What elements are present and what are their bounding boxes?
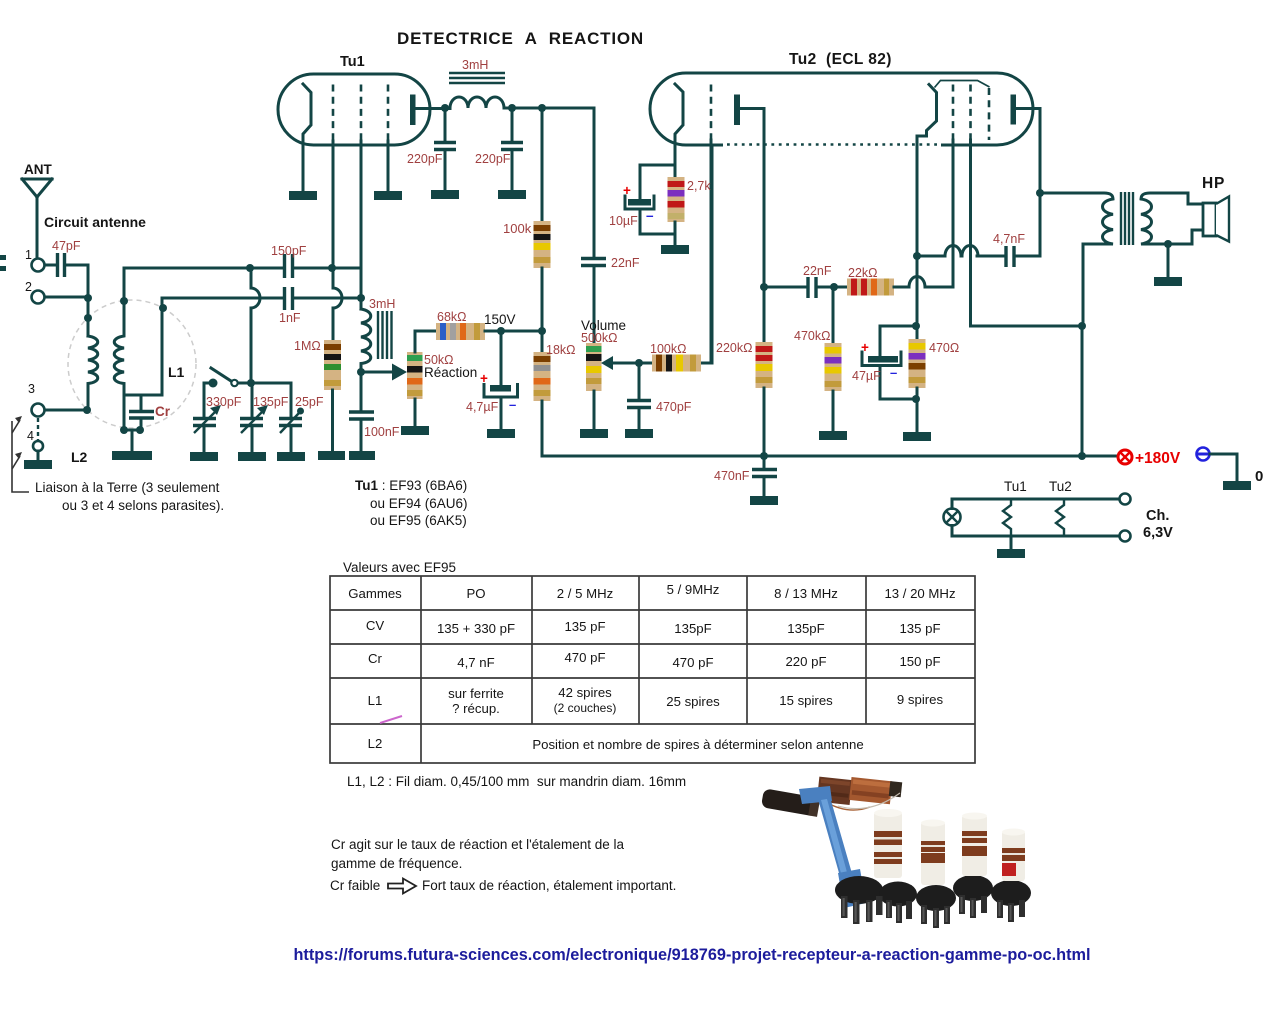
svg-text:HP: HP xyxy=(1202,175,1225,192)
svg-text:ou 3 et 4 selons parasites).: ou 3 et 4 selons parasites). xyxy=(62,498,224,513)
svg-text:135 + 330 pF: 135 + 330 pF xyxy=(437,621,515,636)
svg-text:100nF: 100nF xyxy=(364,425,400,439)
svg-text:Cr agit sur le taux de réactio: Cr agit sur le taux de réaction et l'éta… xyxy=(331,837,624,852)
svg-text:470 pF: 470 pF xyxy=(672,655,713,670)
svg-text:135 pF: 135 pF xyxy=(899,621,940,636)
svg-text:135pF: 135pF xyxy=(787,621,824,636)
svg-text:3: 3 xyxy=(28,382,35,396)
svg-text:3mH: 3mH xyxy=(462,58,488,72)
svg-text:100k: 100k xyxy=(503,221,532,236)
svg-text:ou EF94 (6AU6): ou EF94 (6AU6) xyxy=(370,496,468,511)
svg-text:5 / 9MHz: 5 / 9MHz xyxy=(667,582,720,597)
svg-text:470Ω: 470Ω xyxy=(929,341,959,355)
svg-text:–: – xyxy=(509,397,516,412)
svg-text:1MΩ: 1MΩ xyxy=(294,339,321,353)
svg-text:150 pF: 150 pF xyxy=(899,654,940,669)
svg-text:10µF: 10µF xyxy=(609,214,638,228)
svg-text:9 spires: 9 spires xyxy=(897,692,944,707)
svg-text:https://forums.futura-sciences: https://forums.futura-sciences.com/elect… xyxy=(293,946,1090,964)
svg-text:135pF: 135pF xyxy=(253,395,289,409)
svg-text:470nF: 470nF xyxy=(714,469,750,483)
svg-text:DETECTRICE A REACTION: DETECTRICE A REACTION xyxy=(397,29,644,48)
svg-text:470kΩ: 470kΩ xyxy=(794,329,830,343)
svg-text:ANT: ANT xyxy=(24,162,52,177)
svg-text:2,7k: 2,7k xyxy=(687,179,711,193)
svg-text:6,3V: 6,3V xyxy=(1143,525,1173,541)
svg-text:Liaison à la Terre (3 seulemen: Liaison à la Terre (3 seulement xyxy=(35,480,220,495)
svg-text:0: 0 xyxy=(1255,468,1263,485)
svg-text:220 pF: 220 pF xyxy=(785,654,826,669)
svg-text:–: – xyxy=(646,208,654,223)
svg-text:Tu2: Tu2 xyxy=(1049,479,1072,494)
svg-text:CV: CV xyxy=(366,618,385,633)
svg-text:2 / 5 MHz: 2 / 5 MHz xyxy=(557,586,613,601)
svg-text:Circuit antenne: Circuit antenne xyxy=(44,214,146,230)
svg-text:18kΩ: 18kΩ xyxy=(546,343,576,357)
svg-text:1: 1 xyxy=(25,248,32,262)
svg-text:4: 4 xyxy=(27,429,34,443)
svg-text:47µF: 47µF xyxy=(852,369,881,383)
svg-text:+180V: +180V xyxy=(1135,450,1181,467)
svg-text:? récup.: ? récup. xyxy=(452,701,500,716)
svg-text:1nF: 1nF xyxy=(279,311,301,325)
svg-text:Tu1: Tu1 xyxy=(1004,479,1027,494)
svg-text:PO: PO xyxy=(466,586,485,601)
svg-text:135pF: 135pF xyxy=(674,621,711,636)
svg-text:13 / 20 MHz: 13 / 20 MHz xyxy=(884,586,955,601)
svg-text:22nF: 22nF xyxy=(611,256,640,270)
svg-text:Cr: Cr xyxy=(155,404,171,419)
svg-text:470pF: 470pF xyxy=(656,400,692,414)
svg-text:4,7 nF: 4,7 nF xyxy=(457,655,494,670)
svg-text:L2: L2 xyxy=(368,736,383,751)
svg-text:3mH: 3mH xyxy=(369,297,395,311)
svg-text:L1: L1 xyxy=(168,364,185,380)
svg-text:Gammes: Gammes xyxy=(348,586,402,601)
svg-text:ou EF95 (6AK5): ou EF95 (6AK5) xyxy=(370,513,467,528)
svg-text:150V: 150V xyxy=(484,312,516,327)
svg-text:Tu1: Tu1 xyxy=(340,54,365,70)
svg-text:330pF: 330pF xyxy=(206,395,242,409)
svg-text:15 spires: 15 spires xyxy=(779,693,833,708)
svg-text:L2: L2 xyxy=(71,449,88,465)
svg-text:4,7nF: 4,7nF xyxy=(993,232,1025,246)
svg-text:100kΩ: 100kΩ xyxy=(650,342,686,356)
svg-text:42 spires: 42 spires xyxy=(558,685,612,700)
svg-text:4,7µF: 4,7µF xyxy=(466,400,499,414)
svg-text:–: – xyxy=(890,365,897,380)
svg-text:470 pF: 470 pF xyxy=(564,650,605,665)
svg-text:+: + xyxy=(623,183,631,198)
svg-text:Ch.: Ch. xyxy=(1146,508,1169,524)
svg-text:(2 couches): (2 couches) xyxy=(554,701,617,715)
svg-text:+: + xyxy=(861,340,869,355)
svg-text:gamme de fréquence.: gamme de fréquence. xyxy=(331,856,462,871)
svg-text:Position et nombre de spires à: Position et nombre de spires à détermine… xyxy=(532,737,863,752)
svg-text:Valeurs avec EF95: Valeurs avec EF95 xyxy=(343,560,456,575)
svg-text:500kΩ: 500kΩ xyxy=(581,331,617,345)
svg-text:220kΩ: 220kΩ xyxy=(716,341,752,355)
svg-text:Tu2 (ECL 82): Tu2 (ECL 82) xyxy=(789,51,892,68)
svg-text:sur ferrite: sur ferrite xyxy=(448,686,504,701)
svg-text:Tu1 : EF93 (6BA6): Tu1 : EF93 (6BA6) xyxy=(355,478,467,493)
svg-text:L1, L2 : Fil diam. 0,45/100 mm: L1, L2 : Fil diam. 0,45/100 mm sur mandr… xyxy=(347,774,686,789)
svg-text:68kΩ: 68kΩ xyxy=(437,310,467,324)
svg-text:22kΩ: 22kΩ xyxy=(848,266,878,280)
svg-text:Cr faible: Cr faible xyxy=(330,878,380,893)
svg-text:47pF: 47pF xyxy=(52,239,81,253)
svg-text:25 spires: 25 spires xyxy=(666,694,720,709)
svg-text:220pF: 220pF xyxy=(475,152,511,166)
svg-text:+: + xyxy=(480,371,488,386)
svg-text:25pF: 25pF xyxy=(295,395,324,409)
svg-text:Réaction: Réaction xyxy=(424,365,477,380)
svg-text:22nF: 22nF xyxy=(803,264,832,278)
svg-text:220pF: 220pF xyxy=(407,152,443,166)
svg-text:2: 2 xyxy=(25,280,32,294)
svg-text:L1: L1 xyxy=(368,693,383,708)
svg-text:Fort taux de réaction, étaleme: Fort taux de réaction, étalement importa… xyxy=(422,878,676,893)
svg-text:150pF: 150pF xyxy=(271,244,307,258)
svg-text:135 pF: 135 pF xyxy=(564,619,605,634)
svg-text:Cr: Cr xyxy=(368,651,383,666)
svg-text:8 / 13 MHz: 8 / 13 MHz xyxy=(774,586,838,601)
